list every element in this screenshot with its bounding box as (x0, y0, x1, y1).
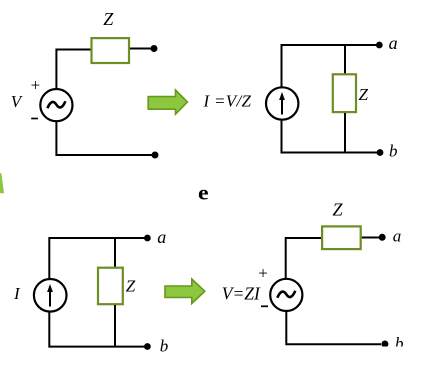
current source (top-right, arrow up) (266, 87, 298, 119)
wire: Z4 right to terminal a (362, 237, 379, 239)
white clip band over bottom-right terminal area (378, 347, 435, 383)
wire: bottom rail (49, 346, 147, 348)
green arrow (top) (148, 90, 187, 114)
svg-text:Z: Z (333, 200, 344, 220)
terminal node b (bottom-right, clipped) (381, 341, 388, 348)
svg-text:Z: Z (103, 9, 114, 29)
voltage source V=ZI (circle with sine) (270, 279, 302, 311)
svg-text:e: e (198, 181, 209, 205)
terminal node b (top-right) (377, 149, 384, 156)
voltage source V (circle with sine) (40, 89, 72, 121)
terminal node (top-left circuit, upper) (151, 45, 158, 52)
svg-text:a: a (389, 33, 398, 53)
wire: Z1 right to terminal (130, 48, 151, 50)
wire: middle branch lower (344, 113, 346, 154)
green arrow (bottom) (165, 279, 205, 304)
terminal node a (bottom-right) (379, 234, 386, 241)
wire: left branch lower (48, 312, 50, 348)
impedance Z1 (series) (92, 38, 130, 63)
svg-text:b: b (160, 337, 169, 356)
wire: top rail (282, 44, 380, 46)
svg-text:a: a (393, 227, 402, 246)
wire: bottom of circuit (source bottom to lower terminal) (56, 122, 152, 155)
current source I (bottom-left, arrow up) (34, 279, 67, 312)
wire: top rail (49, 237, 147, 239)
svg-text:V: V (11, 92, 24, 111)
wire: middle branch lower (114, 305, 116, 347)
wire: left branch upper (48, 237, 50, 279)
wire: top horizontal from source top corner to Z1 left (56, 50, 91, 90)
svg-text:I: I (13, 284, 21, 303)
svg-text:+: + (31, 76, 41, 95)
wire: middle branch upper (to Z2) (344, 45, 346, 74)
svg-text:+: + (258, 263, 268, 282)
terminal node a (top-right) (376, 42, 383, 49)
wire: bottom rail (282, 152, 381, 154)
impedance Z3 (parallel) (98, 268, 123, 305)
svg-text:Z: Z (359, 85, 369, 104)
terminal node b (bottom-left) (144, 343, 151, 350)
wire: left branch lower (281, 120, 283, 154)
terminal node (top-left circuit, lower) (152, 152, 159, 159)
wire: from source top corner to Z4 left (286, 238, 322, 279)
wire: bottom (source bottom to terminal b) (286, 312, 381, 345)
impedance Z2 (parallel) (333, 74, 356, 112)
impedance Z4 (series) (322, 226, 361, 249)
svg-text:b: b (389, 142, 398, 161)
wire: left branch upper (281, 44, 283, 87)
polarity - (bottom-right source) (261, 305, 268, 307)
terminal node a (bottom-left) (144, 235, 151, 242)
svg-text:Z: Z (126, 277, 136, 296)
clipped green arrow tip at left edge (0, 173, 4, 194)
svg-text:V=ZI: V=ZI (222, 284, 261, 304)
svg-text:a: a (157, 227, 166, 247)
wire: middle branch upper (to Z3) (114, 238, 116, 268)
svg-text:I =V/Z: I =V/Z (203, 92, 252, 111)
polarity - (top-left source) (31, 118, 38, 120)
